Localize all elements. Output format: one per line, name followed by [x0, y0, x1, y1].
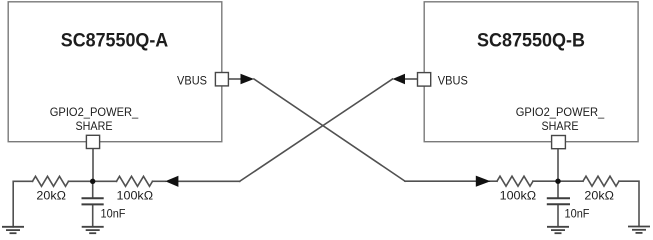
svg-text:20kΩ: 20kΩ [36, 189, 66, 203]
svg-text:10nF: 10nF [101, 207, 126, 221]
svg-text:100kΩ: 100kΩ [117, 189, 154, 203]
svg-text:GPIO2_POWER_: GPIO2_POWER_ [50, 105, 139, 119]
svg-text:SHARE: SHARE [76, 119, 113, 133]
svg-text:SHARE: SHARE [542, 119, 579, 133]
svg-text:20kΩ: 20kΩ [584, 189, 614, 203]
svg-text:SC87550Q-B: SC87550Q-B [477, 31, 585, 52]
svg-text:VBUS: VBUS [438, 74, 468, 88]
svg-text:GPIO2_POWER_: GPIO2_POWER_ [516, 105, 605, 119]
svg-text:SC87550Q-A: SC87550Q-A [61, 31, 169, 52]
svg-text:VBUS: VBUS [177, 74, 207, 88]
svg-text:100kΩ: 100kΩ [500, 189, 537, 203]
svg-text:10nF: 10nF [565, 207, 590, 221]
